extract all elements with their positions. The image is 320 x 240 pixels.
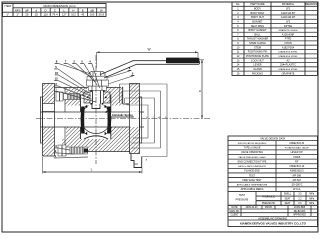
svg-text:102: 102 (71, 13, 76, 17)
svg-text:STAINLESS STEEL: STAINLESS STEEL (278, 68, 298, 71)
svg-text:ASME B16.5: ASME B16.5 (290, 170, 304, 173)
svg-text:RE-BV-003: RE-BV-003 (294, 211, 306, 213)
svg-text:E: E (82, 8, 84, 12)
svg-text:-29~180°C: -29~180°C (291, 184, 303, 187)
svg-text:APPLICABLE MEDIA: APPLICABLE MEDIA (241, 188, 264, 191)
svg-text:PRESSURE: PRESSURE (236, 199, 249, 201)
svg-text:MPa: MPa (309, 194, 314, 196)
svg-text:API 607: API 607 (292, 179, 301, 182)
svg-text:25: 25 (35, 13, 39, 17)
svg-text:PART NAME: PART NAME (250, 3, 265, 6)
svg-text:SPECIFICATION REQUIRED: SPECIFICATION REQUIRED (238, 142, 267, 145)
svg-text:THRUST WASHER: THRUST WASHER (247, 38, 269, 41)
svg-text:FLOATING BALL VALVE: FLOATING BALL VALVE (285, 147, 310, 150)
svg-text:XIAMEN DERVOS VALVES INDUSTRY: XIAMEN DERVOS VALVES INDUSTRY CO.,LTD (240, 222, 307, 226)
svg-text:ITEM: ITEM (4, 4, 11, 8)
svg-text:END CONNECTION TYPE: END CONNECTION TYPE (238, 160, 267, 163)
svg-text:API 598: API 598 (292, 174, 301, 177)
svg-text:H: H (72, 8, 74, 12)
svg-text:VITON: VITON (284, 42, 292, 45)
svg-text:dP: dP (25, 8, 29, 12)
svg-text:PTFE: PTFE (285, 38, 292, 41)
svg-text:STEM O-RING: STEM O-RING (249, 42, 266, 45)
svg-text:45: 45 (81, 13, 85, 17)
svg-text:SEAT RING: SEAT RING (251, 25, 264, 28)
svg-text:PNEUMATIC: PNEUMATIC (262, 202, 276, 205)
svg-text:MPa: MPa (309, 198, 314, 200)
svg-text:A105+ENP: A105+ENP (282, 33, 295, 36)
svg-text:LOCK NUT: LOCK NUT (251, 59, 264, 62)
svg-text:A193 GR.B7: A193 GR.B7 (281, 12, 296, 15)
svg-text:STAINLESS STEEL: STAINLESS STEEL (278, 51, 298, 54)
svg-text:LF2: LF2 (286, 7, 291, 10)
svg-text:79.4: 79.4 (52, 13, 58, 17)
svg-text:RF: RF (295, 160, 299, 163)
svg-text:W: W (100, 8, 103, 12)
svg-text:BODY GASKET: BODY GASKET (249, 29, 267, 32)
svg-text:C: C (54, 8, 56, 12)
svg-text:LEVER OP.: LEVER OP. (291, 151, 304, 154)
svg-text:165: 165 (90, 13, 95, 17)
svg-text:SEAT: SEAT (285, 197, 291, 200)
svg-text:ASSEMBLING DRAWING: ASSEMBLING DRAWING (258, 217, 287, 220)
svg-text:Antistatic Spring: Antistatic Spring (112, 113, 133, 117)
svg-text:DATE: DATE (232, 206, 238, 209)
svg-text:TYPE of VALVE: TYPE of VALVE (244, 147, 261, 150)
svg-text:W.O.G: W.O.G (293, 188, 300, 191)
svg-text:HYDRAULIC: HYDRAULIC (262, 195, 276, 198)
svg-text:MAIN DIMENSION (mm): MAIN DIMENSION (mm) (44, 4, 76, 8)
svg-text:dB: dB (90, 8, 94, 12)
svg-text:ASME B16.10: ASME B16.10 (289, 165, 305, 168)
svg-text:110: 110 (43, 13, 48, 17)
svg-text:No.: No. (236, 3, 240, 6)
svg-text:POSITIONING PLATE: POSITIONING PLATE (246, 55, 269, 58)
svg-text:2009-10-20: 2009-10-20 (246, 207, 258, 209)
svg-text:ASME B16.34: ASME B16.34 (289, 142, 305, 145)
svg-text:TEST: TEST (249, 174, 256, 177)
svg-text:MATERIAL: MATERIAL (282, 3, 295, 6)
svg-text:GRAPHITE: GRAPHITE (282, 72, 295, 75)
svg-text:MPa: MPa (309, 203, 314, 205)
svg-text:1": 1" (16, 13, 19, 17)
svg-text:L: L (91, 168, 93, 172)
svg-text:GLAND: GLAND (253, 68, 262, 71)
svg-text:REMARKS: REMARKS (305, 3, 317, 6)
svg-text:POSITIONING PIN: POSITIONING PIN (248, 52, 268, 54)
svg-text:FACE to FACE DIMENSION: FACE to FACE DIMENSION (238, 165, 266, 168)
svg-text:BONNET: BONNET (252, 20, 263, 23)
svg-text:150LB: 150LB (293, 156, 300, 159)
svg-text:STAINLESS STEEL: STAINLESS STEEL (278, 55, 298, 58)
svg-text:PACKING: PACKING (252, 72, 263, 75)
svg-text:VALVE PRESSURE CLASS: VALVE PRESSURE CLASS (238, 156, 266, 159)
svg-text:DWG.NO: DWG.NO (230, 211, 240, 213)
svg-text:SHELL: SHELL (284, 194, 292, 196)
svg-text:DSN'D: DSN'D (265, 207, 272, 209)
svg-text:RPTFE: RPTFE (284, 25, 293, 28)
svg-text:A182 F304: A182 F304 (282, 46, 295, 49)
svg-text:25: 25 (25, 13, 29, 17)
svg-text:BODY: BODY (254, 7, 261, 10)
svg-text:13: 13 (54, 77, 58, 81)
svg-text:APPLICABLE TEMPERATURE: APPLICABLE TEMPERATURE (237, 184, 268, 187)
svg-text:TEST: TEST (239, 194, 246, 197)
svg-text:20#+PLASTIC: 20#+PLASTIC (280, 64, 296, 67)
svg-text:A194 GR.2H: A194 GR.2H (281, 16, 295, 19)
svg-text:NPS: NPS (15, 8, 21, 12)
svg-text:SEAT: SEAT (285, 202, 291, 205)
svg-text:LEVER: LEVER (253, 64, 261, 67)
svg-text:BODY BOLT: BODY BOLT (250, 12, 265, 15)
svg-text:APPROVED: APPROVED (293, 214, 306, 217)
svg-text:BODY NUT: BODY NUT (251, 16, 264, 19)
svg-text:STEM: STEM (254, 46, 261, 49)
svg-text:H: H (199, 89, 201, 93)
svg-text:FLANGE END: FLANGE END (244, 170, 260, 173)
svg-text:127: 127 (62, 13, 67, 17)
svg-text:CLIENT: CLIENT (230, 215, 239, 217)
svg-text:W: W (147, 48, 150, 52)
svg-text:15: 15 (55, 71, 59, 75)
svg-text:20-BV-B08: 20-BV-B08 (294, 207, 306, 209)
svg-text:50.8: 50.8 (99, 13, 105, 17)
svg-text:1": 1" (6, 13, 9, 17)
svg-text:VALVE DESIGN DATA: VALVE DESIGN DATA (260, 137, 285, 140)
svg-text:BALL: BALL (254, 33, 261, 36)
svg-text:D: D (45, 8, 47, 12)
svg-text:FIRE SAFE TEST: FIRE SAFE TEST (242, 179, 262, 182)
svg-text:LF2: LF2 (286, 20, 291, 23)
svg-text:GRAPHITE+SS304: GRAPHITE+SS304 (278, 29, 298, 32)
svg-text:VALVE OPERATING: VALVE OPERATING (241, 151, 263, 154)
